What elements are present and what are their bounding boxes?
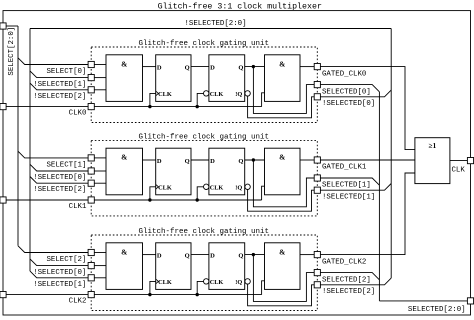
svg-text:SELECTED[1]: SELECTED[1] xyxy=(322,182,371,190)
svg-text:Glitch-free 3:1 clock multiple: Glitch-free 3:1 clock multiplexer xyxy=(158,2,322,12)
svg-text:Glitch-free clock gating unit: Glitch-free clock gating unit xyxy=(138,228,269,236)
wire !SELECTED[1] join to !SELECTED bus xyxy=(320,184,391,191)
wire SELECT bus tap to unit 2 xyxy=(18,246,88,253)
wire SELECTED[1] join to SELECTED bus xyxy=(320,178,379,185)
wire or-gate output to CLK port xyxy=(450,160,468,162)
input port SELECT[2] unit 2 xyxy=(88,249,94,255)
output port GATED_CLK0 unit 0 xyxy=(314,64,320,70)
port CLK0 (left border input) xyxy=(0,104,6,110)
d-flip-flop U0B (box, D, Q, CLK wedge) xyxy=(156,55,191,102)
svg-text:D: D xyxy=(210,158,215,165)
svg-text:D: D xyxy=(157,253,162,260)
output port SELECTED[1] unit 1 xyxy=(314,175,320,181)
output port GATED_CLK2 unit 2 xyxy=(314,252,320,258)
wire clk riser to dff2 bubble xyxy=(197,187,203,200)
wire !SELECTED bus tap A to unit 1 xyxy=(30,164,88,171)
and-gate U0A (enable AND) xyxy=(106,55,143,102)
junction clk rail at dff1 xyxy=(148,105,151,108)
wire !SELECTED bus right vertical xyxy=(390,29,392,279)
output port GATED_CLK1 unit 1 xyxy=(314,157,320,163)
output port SELECTED[0] unit 0 xyxy=(314,82,320,88)
svg-text:!SELECTED[0]: !SELECTED[0] xyxy=(322,100,375,108)
svg-text:Glitch-free clock gating unit: Glitch-free clock gating unit xyxy=(138,133,269,141)
svg-text:&: & xyxy=(279,247,285,256)
wire dff1 Q to dff2 D xyxy=(191,159,209,161)
svg-text:Q: Q xyxy=(238,65,243,72)
svg-text:CLK1: CLK1 xyxy=(69,203,87,211)
wire and1 out to dff1 D xyxy=(143,254,156,256)
wire !SELECTED bus tap B to unit 0 xyxy=(30,83,88,90)
svg-text:CLK: CLK xyxy=(451,167,465,175)
svg-text:CLK: CLK xyxy=(158,91,172,98)
svg-text:!Q: !Q xyxy=(235,91,242,98)
junction dff2 Q branch xyxy=(252,253,255,256)
svg-text:!SELECTED[2:0]: !SELECTED[2:0] xyxy=(184,20,246,28)
input port CLK2 unit 2 xyxy=(88,292,94,298)
clock gating unit 0 dashed box xyxy=(91,47,317,123)
port CLK1 (left border input) xyxy=(0,197,6,203)
wire SELECTED[2:0] bottom rail to port xyxy=(379,300,467,302)
junction clk rail at dff1 xyxy=(148,293,151,296)
wire CLK2 to unit 2 xyxy=(6,294,88,296)
wire !SELECTED bus tap A to unit 2 xyxy=(30,259,88,266)
svg-text:GATED_CLK0: GATED_CLK0 xyxy=(322,70,366,78)
svg-text:SELECT[2]: SELECT[2] xyxy=(46,256,86,264)
and-gate U0D (clock AND) xyxy=(265,55,301,102)
wire SELECTED bus right vertical xyxy=(378,92,380,301)
wire !SELECTED bus tap A to unit 0 xyxy=(30,71,88,78)
wire GATED_CLK0 to or-gate xyxy=(320,67,415,150)
wire !SELECTED[2] stub xyxy=(94,182,106,184)
svg-text:SELECT[1]: SELECT[1] xyxy=(46,162,86,170)
d-flip-flop U0C (negedge, box, D, Q, CLK bubble, !Q bubble) xyxy=(209,55,245,102)
clock gating unit 1 dashed box xyxy=(91,140,317,216)
svg-text:!SELECTED[1]: !SELECTED[1] xyxy=(322,194,375,202)
wire clk to and2 second input xyxy=(262,281,265,295)
svg-text:Q: Q xyxy=(238,253,243,260)
wire clk riser to dff1 xyxy=(150,93,156,106)
junction clk rail at dff2 xyxy=(196,293,199,296)
wire CLK1 to unit 1 xyxy=(6,199,88,201)
wire and2 out to GATED port xyxy=(300,254,314,256)
input port !SELECTED[0] unit 1 xyxy=(88,168,94,174)
wire CLK0 rail xyxy=(94,106,261,108)
or-gate (clock combine) xyxy=(415,138,450,184)
junction clk rail at dff2 xyxy=(196,198,199,201)
wire clk to and2 second input xyxy=(262,93,265,107)
and-gate U1D (clock AND) xyxy=(265,148,301,195)
wire SELECT bus vertical xyxy=(17,26,19,246)
wire SELECT bus tap to unit 1 xyxy=(18,151,88,158)
d-flip-flop U2C (negedge, box, D, Q, CLK bubble, !Q bubble) xyxy=(209,243,245,290)
wire SELECT[0] stub xyxy=(94,64,106,66)
svg-text:!Q: !Q xyxy=(235,184,242,191)
wire GATED_CLK1 to or-gate xyxy=(320,159,415,161)
input port !SELECTED[2] unit 1 xyxy=(88,180,94,186)
svg-text:≥1: ≥1 xyxy=(429,142,437,150)
wire GATED_CLK2 to or-gate xyxy=(320,173,415,255)
wire and2 out to GATED port xyxy=(300,66,314,68)
svg-text:D: D xyxy=(210,65,215,72)
wire clk riser to dff2 bubble xyxy=(197,281,203,294)
input port !SELECTED[2] unit 0 xyxy=(88,87,94,93)
wire !SELECTED bus left vertical xyxy=(29,29,31,272)
wire dff1 Q to dff2 D xyxy=(191,66,209,68)
and-gate U2A (enable AND) xyxy=(106,243,143,290)
junction clk rail at dff1 xyxy=(148,198,151,201)
svg-text:D: D xyxy=(157,158,162,165)
wire dff2 Q to and2 xyxy=(245,159,265,161)
clock gating unit 2 dashed box xyxy=(91,235,317,311)
svg-text:&: & xyxy=(121,247,127,256)
port CLK2 (left border input) xyxy=(0,292,6,298)
svg-text:!SELECTED[1]: !SELECTED[1] xyxy=(33,281,86,289)
wire !SELECTED bus tap B to unit 1 xyxy=(30,177,88,184)
svg-text:!Q: !Q xyxy=(235,279,242,286)
svg-text:&: & xyxy=(279,59,285,68)
wire !SELECTED[2] stub xyxy=(94,89,106,91)
wire clk riser to dff1 xyxy=(150,187,156,200)
input port SELECT[0] unit 0 xyxy=(88,61,94,67)
wire SELECTED[2] from Q branch to port xyxy=(253,255,314,302)
svg-text:SELECT[0]: SELECT[0] xyxy=(46,68,86,76)
svg-text:&: & xyxy=(121,153,127,162)
port SELECTED[2:0] (right border output) xyxy=(467,298,473,304)
svg-text:!SELECTED[2]: !SELECTED[2] xyxy=(33,186,86,194)
d-flip-flop U1B (box, D, Q, CLK wedge) xyxy=(156,148,191,195)
wire SELECTED[0] from Q branch to port xyxy=(253,67,314,114)
svg-text:GATED_CLK2: GATED_CLK2 xyxy=(322,258,366,266)
d-flip-flop U1C (negedge, box, D, Q, CLK bubble, !Q bubble) xyxy=(209,148,245,195)
wire dff2 Q to and2 xyxy=(245,254,265,256)
wire !SELECTED[1] stub xyxy=(94,77,106,79)
svg-text:D: D xyxy=(157,65,162,72)
input port !SELECTED[1] unit 0 xyxy=(88,75,94,81)
wire SELECT[2] stub xyxy=(94,252,106,254)
wire SELECTED[2] join to SELECTED bus xyxy=(320,273,379,280)
wire and1 out to dff1 D xyxy=(143,66,156,68)
svg-text:GATED_CLK1: GATED_CLK1 xyxy=(322,164,367,172)
input port !SELECTED[1] unit 2 xyxy=(88,275,94,281)
wire SELECT bus tap to unit 0 xyxy=(18,58,88,65)
svg-text:!SELECTED[0]: !SELECTED[0] xyxy=(33,174,86,182)
svg-text:D: D xyxy=(210,253,215,260)
svg-text:CLK: CLK xyxy=(210,91,224,98)
wire !SELECTED[0] stub xyxy=(94,265,106,267)
junction dff2 Q branch xyxy=(252,65,255,68)
wire CLK2 rail xyxy=(94,294,261,296)
svg-text:CLK2: CLK2 xyxy=(69,298,87,306)
svg-text:CLK: CLK xyxy=(210,279,224,286)
wire !SELECTED[0] from !Q bubble to port xyxy=(248,96,315,118)
wire SELECT[2:0] port to bus xyxy=(6,25,18,27)
svg-text:!SELECTED[2]: !SELECTED[2] xyxy=(322,288,375,296)
output port !SELECTED[2] unit 2 xyxy=(314,282,320,288)
svg-text:Q: Q xyxy=(185,253,190,260)
svg-text:Q: Q xyxy=(238,158,243,165)
input port SELECT[1] unit 1 xyxy=(88,155,94,161)
wire !SELECTED[2] join to !SELECTED bus xyxy=(320,278,391,285)
junction dff2 Q branch xyxy=(252,158,255,161)
wire and2 out to GATED port xyxy=(300,159,314,161)
svg-text:CLK: CLK xyxy=(158,184,172,191)
svg-text:!SELECTED[1]: !SELECTED[1] xyxy=(33,81,86,89)
wire clk riser to dff2 bubble xyxy=(197,93,203,106)
input port CLK0 unit 0 xyxy=(88,104,94,110)
svg-text:!SELECTED[0]: !SELECTED[0] xyxy=(33,269,86,277)
output port !SELECTED[1] unit 1 xyxy=(314,187,320,193)
wire SELECTED[0] join to SELECTED bus xyxy=(320,85,379,92)
wire dff2 Q to and2 xyxy=(245,66,265,68)
svg-text:Glitch-free clock gating unit: Glitch-free clock gating unit xyxy=(138,40,269,48)
svg-text:CLK0: CLK0 xyxy=(69,110,87,118)
svg-text:SELECTED[2:0]: SELECTED[2:0] xyxy=(408,306,466,314)
output port !SELECTED[0] unit 0 xyxy=(314,94,320,100)
output port SELECTED[2] unit 2 xyxy=(314,270,320,276)
svg-text:!SELECTED[2]: !SELECTED[2] xyxy=(33,93,86,101)
wire !SELECTED[0] join to !SELECTED bus xyxy=(320,90,391,97)
svg-text:CLK: CLK xyxy=(210,184,224,191)
svg-text:SELECTED[2]: SELECTED[2] xyxy=(322,276,371,284)
input port CLK1 unit 1 xyxy=(88,197,94,203)
port SELECT[2:0] (left border input) xyxy=(0,23,6,29)
wire !SELECTED bus tap B to unit 2 xyxy=(30,271,88,278)
wire SELECT[1] stub xyxy=(94,157,106,159)
wire !SELECTED[2:0] top rail xyxy=(30,28,391,30)
wire CLK0 to unit 0 xyxy=(6,106,88,108)
svg-text:SELECT[2:0]: SELECT[2:0] xyxy=(8,27,16,76)
wire !SELECTED[1] stub xyxy=(94,277,106,279)
wire !SELECTED[2] from !Q bubble to port xyxy=(248,284,315,306)
and-gate U2D (clock AND) xyxy=(265,243,301,290)
input port !SELECTED[0] unit 2 xyxy=(88,263,94,269)
svg-text:Q: Q xyxy=(185,158,190,165)
wire clk riser to dff1 xyxy=(150,281,156,294)
wire and1 out to dff1 D xyxy=(143,159,156,161)
wire SELECTED[1] from Q branch to port xyxy=(253,160,314,207)
junction clk rail at dff2 xyxy=(196,105,199,108)
wire clk to and2 second input xyxy=(262,186,265,200)
svg-text:CLK: CLK xyxy=(158,279,172,286)
svg-text:SELECTED[0]: SELECTED[0] xyxy=(322,88,371,96)
wire CLK1 rail xyxy=(94,199,261,201)
and-gate U1A (enable AND) xyxy=(106,148,143,195)
svg-text:&: & xyxy=(121,59,127,68)
wire !SELECTED[1] from !Q bubble to port xyxy=(248,190,315,212)
svg-text:Q: Q xyxy=(185,65,190,72)
svg-text:&: & xyxy=(279,153,285,162)
d-flip-flop U2B (box, D, Q, CLK wedge) xyxy=(156,243,191,290)
wire dff1 Q to dff2 D xyxy=(191,254,209,256)
port CLK (right border output) xyxy=(467,158,473,164)
wire !SELECTED[0] stub xyxy=(94,170,106,172)
